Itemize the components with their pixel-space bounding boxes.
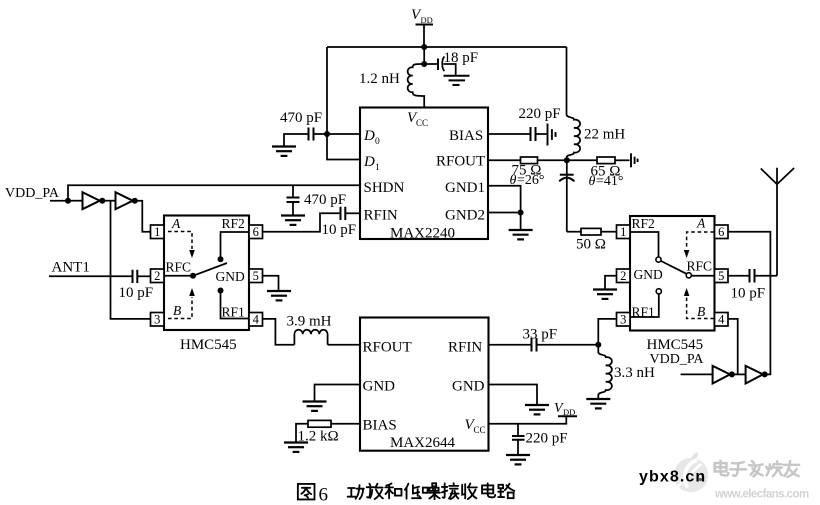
svg-text:D: D [363,128,375,144]
svg-text:=41°: =41° [596,174,624,189]
junction RFOUT node [564,157,570,163]
svg-text:470 pF: 470 pF [280,110,322,126]
buffer amplifier 1 (left) [83,192,100,209]
node VDD bottom [554,401,577,417]
svg-text:θ: θ [589,174,596,189]
junction GND2 [518,210,524,216]
svg-text:50 Ω: 50 Ω [576,237,606,253]
svg-text:GND: GND [216,269,245,284]
svg-text:5: 5 [718,269,724,283]
svg-text:4: 4 [718,313,725,327]
char 收 [462,483,477,499]
wire pin2 to ground (right) [605,276,617,289]
svg-text:3.9 mH: 3.9 mH [287,314,332,330]
wire pin4 branch [728,319,738,375]
svg-text:GND: GND [634,267,663,282]
svg-text:3.3 nH: 3.3 nH [614,365,655,381]
buffer amplifier 1 (right) [713,366,730,384]
antenna [761,168,794,276]
wire GND1 [488,186,521,213]
capacitor 10 pF (RFIN) [322,207,361,238]
ground (BIAS, rotated) [548,124,556,146]
svg-text:RFIN: RFIN [364,208,398,224]
wire VDD to LC node [423,47,425,64]
svg-text:VDD_PA: VDD_PA [650,352,705,367]
resistor 1.2 kohm [296,420,360,444]
capacitor (phase stub below junction) [560,160,574,231]
junction buffer2 out (right) [762,371,768,377]
wire 65 ohm to ground [615,159,630,161]
junction VDD_PA [65,198,71,204]
op-amp U1 MAX2240 [360,108,488,242]
ground (220 pF VCC) [506,455,530,464]
node ANT1 [49,260,132,277]
wire buffer1 to buffer2 [100,200,116,202]
wire VCC (MAX2644) [489,417,567,424]
svg-text:6: 6 [718,225,724,239]
ground (right HMC545 pin2) [593,290,617,299]
svg-text:2: 2 [620,269,626,283]
svg-text:22 mH: 22 mH [584,127,625,143]
wire RFOUT [488,159,521,161]
svg-text:4: 4 [253,313,260,327]
svg-text:RFOUT: RFOUT [363,340,412,356]
capacitor 10 pF (right pin5) [728,269,777,302]
resistor 50 ohm [576,228,606,252]
wire GND2 [488,212,521,214]
wire 50 ohm to pin1 [601,231,617,233]
svg-text:2: 2 [154,269,160,283]
svg-text:A: A [171,216,181,231]
junction buffer1 out [99,198,105,204]
char 和 [385,483,401,498]
logo ball [674,453,708,493]
ground (left HMC545 pin5) [267,291,291,300]
svg-text:HMC545: HMC545 [180,337,237,353]
svg-text:RFC: RFC [166,260,192,275]
wire top rail [327,46,567,48]
ground (470 pF SHDN) [281,216,305,225]
char 噪 [423,483,440,499]
svg-text:3: 3 [154,313,160,327]
junction D0 [324,131,330,137]
ground (1.2 kohm) [284,443,308,452]
wire pin3 to 33pF node [598,319,616,345]
resistor 75 ohm [510,157,545,188]
svg-text:RFIN: RFIN [448,340,482,356]
capacitor 220 pF (VCC) [512,424,568,454]
node VDD_PA left [5,186,68,201]
ground (MAX2644 right) [525,405,549,414]
svg-text:HMC545: HMC545 [647,337,704,353]
wire stub to 50 ohm [567,231,581,233]
capacitor 33 pF [489,327,599,352]
svg-text:0: 0 [375,137,380,147]
switch U4 HMC545 (right) [617,216,729,331]
capacitor 220 pF (BIAS) [488,106,561,141]
char 功 [348,485,364,499]
svg-text:A: A [696,216,706,231]
CAPTION: 图 6 功放和低噪接收电路 [298,483,514,505]
char 接 [442,483,459,499]
svg-text:GND1: GND1 [445,180,485,196]
svg-text:10 pF: 10 pF [322,222,357,238]
capacitor 10 pF (ANT1) [119,270,154,301]
buffer amplifier 2 (right) [746,366,763,384]
svg-text:RF1: RF1 [222,305,245,320]
ground (470 pF D0) [272,147,296,156]
wire D0 [327,133,360,135]
wire pin6 to RFIN [263,213,340,231]
inductor 3.9 mH [287,314,361,345]
capacitor 18 pF [424,50,478,75]
WATERMARK [639,453,809,501]
inductor 22 mH [567,47,626,160]
svg-text:1: 1 [154,225,160,239]
svg-text:GND2: GND2 [445,208,485,224]
svg-text:RFC: RFC [687,259,713,274]
svg-text:5: 5 [253,269,259,283]
amplifier U3 MAX2644 [360,318,489,452]
wire VDD_PA to SHDN rail [68,185,360,200]
svg-text:VDD_PA: VDD_PA [5,186,60,201]
char 路 [498,484,514,498]
wire branch to RF1 pin3 [111,201,151,319]
svg-text:3: 3 [620,313,626,327]
inductor 1.2 nH [359,64,424,108]
svg-text:1: 1 [375,163,380,173]
wire buffer2 to pin6 [728,232,771,375]
junction LC node [421,61,427,67]
char 电 [482,483,495,497]
junction 33 pF node [595,342,601,348]
wire right GND (MAX2644) [489,385,538,405]
wire buffer1 to buffer2 (right) [730,373,746,375]
wire pin5 to ground (left) [263,276,279,290]
svg-text:BIAS: BIAS [363,418,397,434]
svg-text:SHDN: SHDN [364,180,405,196]
svg-text:470 pF: 470 pF [304,192,346,208]
svg-text:CC: CC [416,118,428,128]
wire pin4 (left HMC545) to RFOUT [263,319,295,345]
svg-text:GND: GND [363,379,396,395]
svg-text:GND: GND [452,379,485,395]
wire left rail down to D0 [326,47,328,134]
node VDD top [411,7,433,47]
svg-text:RF2: RF2 [632,216,655,231]
capacitor 470 pF (SHDN) [287,185,347,215]
char 放 [367,484,383,499]
junction buffer2 out [132,198,138,204]
wire to ground [520,213,522,230]
svg-text:6: 6 [319,485,329,505]
junction VDD rail [421,44,427,50]
ground (MAX2240) [509,230,533,239]
wire D0 to D1 [327,134,360,160]
wire left GND (MAX2644) [315,385,361,401]
svg-text:33 pF: 33 pF [523,327,558,343]
grey chinese 电子发烧友 [715,461,799,477]
svg-text:10 pF: 10 pF [119,285,154,301]
svg-text:ANT1: ANT1 [52,260,90,276]
svg-text:RFOUT: RFOUT [436,154,485,170]
svg-text:CC: CC [474,425,486,435]
svg-text:B: B [173,303,181,318]
svg-text:B: B [697,304,705,319]
junction buffer1 out (right) [729,371,735,377]
char 图 [298,484,315,500]
svg-text:BIAS: BIAS [449,128,483,144]
switch U2 HMC545 (left) [151,216,263,331]
svg-text:MAX2644: MAX2644 [390,435,456,451]
svg-text:6: 6 [253,225,259,239]
svg-text:MAX2240: MAX2240 [390,226,455,242]
wire 75 ohm to junction [538,159,598,161]
svg-text:D: D [363,154,375,170]
svg-text:www.elecfans.com: www.elecfans.com [714,489,809,501]
svg-text:220 pF: 220 pF [519,106,561,122]
ground (3.3 nH) [586,399,610,408]
node VDD_PA right [650,352,713,374]
ground (18 pF) [444,76,470,85]
buffer amplifier 2 (left) [116,192,133,209]
svg-text:RF2: RF2 [222,216,245,231]
wire buffer2 to pin1 [133,201,151,232]
char 低 [405,484,421,499]
svg-text:220 pF: 220 pF [526,431,568,447]
svg-text:1.2 nH: 1.2 nH [359,71,400,87]
capacitor 470 pF (D0) [280,110,327,146]
ground (MAX2644 left) [303,402,327,411]
resistor 65 ohm [589,157,624,189]
inductor 3.3 nH [598,345,655,398]
svg-text:ybx8.cn: ybx8.cn [639,469,706,486]
ground (65 ohm, rotated small) [631,153,638,167]
svg-text:10 pF: 10 pF [731,286,766,302]
svg-text:1: 1 [620,225,626,239]
